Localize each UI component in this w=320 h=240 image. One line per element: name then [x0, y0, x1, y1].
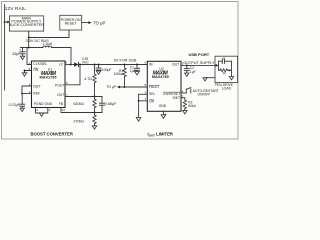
- ground below 270k: [92, 126, 96, 129]
- svg-text:ISET: ISET: [173, 96, 181, 100]
- block pen-drive load: [215, 56, 238, 82]
- junction 100uF top: [98, 64, 100, 66]
- pin 3 ISET wire to REF: [22, 86, 32, 93]
- svg-text:0.22µF: 0.22µF: [9, 103, 21, 107]
- block main power supply buck converter: [9, 16, 45, 31]
- svg-text:1.5µH: 1.5µH: [43, 42, 53, 46]
- wire 5V line: [78, 64, 147, 66]
- junction 4.7ohm bottom: [94, 96, 96, 98]
- junction POUT node: [79, 64, 81, 66]
- junction 4.7ohm top: [94, 64, 96, 66]
- op IC U1 boost converter: [32, 61, 66, 108]
- diode D1: [74, 62, 78, 66]
- pin 1 CLK/SEL wire to bus: [27, 48, 32, 65]
- svg-text:+: +: [19, 48, 21, 52]
- wire power-on reset output to uP: [82, 22, 89, 24]
- wire LX pin to 5V line: [65, 64, 74, 66]
- svg-text:0.68µF: 0.68µF: [105, 102, 117, 106]
- svg-text:IOUT LIMITER: IOUT LIMITER: [148, 132, 173, 138]
- resistor R2 60k on ISET: [181, 98, 197, 111]
- svg-text:1µF: 1µF: [190, 70, 196, 74]
- svg-text:REF: REF: [33, 92, 40, 96]
- capacitor 0.68uF feedforward: [100, 97, 118, 113]
- wire 3.3V bus horizontal to inductor: [21, 47, 43, 49]
- junction C2 top: [186, 64, 188, 66]
- pin 2 ON wire: [25, 71, 32, 73]
- junction SEL/ON: [138, 100, 140, 102]
- svg-text:LX: LX: [59, 62, 64, 66]
- capacitor C1 1uF: [130, 65, 140, 73]
- pin SEL wire: [139, 93, 148, 95]
- pin PGND GND wires: [36, 108, 48, 114]
- ground below 0.22uF: [20, 108, 24, 111]
- wire load box ground: [205, 77, 215, 79]
- junction bus tee: [28, 37, 30, 39]
- wire rail to main box: [5, 21, 10, 23]
- resistor R1 100k pullup: [114, 65, 127, 88]
- svg-text:BUCK CONVERTER: BUCK CONVERTER: [9, 23, 45, 27]
- svg-text:RESET: RESET: [65, 21, 78, 25]
- wire FAULT line to uP: [118, 86, 147, 88]
- pin ON wire: [139, 100, 148, 102]
- svg-text:FAULT: FAULT: [149, 85, 159, 89]
- pin numbers U2: [145, 61, 184, 117]
- svg-text:4.7Ω: 4.7Ω: [84, 77, 92, 81]
- junction on 12V rail: [4, 21, 6, 23]
- svg-text:10: 10: [62, 108, 66, 112]
- svg-text:100µF: 100µF: [102, 68, 112, 72]
- resistor 4.7 ohm: [84, 65, 96, 97]
- wire OUT pin: [65, 96, 102, 98]
- block power-on reset: [60, 15, 82, 30]
- svg-text:LOAD: LOAD: [222, 87, 232, 91]
- svg-text:12V RAIL: 12V RAIL: [5, 6, 27, 11]
- svg-text:ON/OFF: ON/OFF: [198, 92, 211, 96]
- border frame: [2, 2, 239, 140]
- junction R1 bottom on fault line: [124, 86, 126, 88]
- wire main box to 3.3V bus: [28, 32, 30, 48]
- svg-text:OUT: OUT: [172, 63, 179, 67]
- svg-text:CLK/SEL: CLK/SEL: [33, 62, 47, 66]
- svg-text:270kΩ: 270kΩ: [74, 120, 85, 124]
- ground below SEL/ON: [136, 118, 141, 122]
- svg-text:GND: GND: [45, 102, 53, 106]
- svg-text:620kΩ: 620kΩ: [74, 102, 85, 106]
- pin EN/RESET wire and switch: [181, 88, 191, 93]
- ground below R2: [183, 110, 187, 113]
- svg-text:PGND: PGND: [34, 102, 44, 106]
- svg-text:MAX4789: MAX4789: [152, 75, 169, 79]
- junction LX node: [70, 64, 72, 66]
- capacitor 0.22uF on REF: [9, 93, 25, 108]
- svg-text:TO µP: TO µP: [106, 85, 117, 89]
- wire 3.3V bus to reset box: [29, 30, 69, 38]
- ground below C2: [185, 73, 189, 76]
- pin GND wire U2: [162, 111, 164, 115]
- wire SEL/ON to ground: [138, 94, 140, 117]
- svg-text:OUTPUT SUPPLY: OUTPUT SUPPLY: [183, 61, 215, 65]
- ground at ON pin: [22, 73, 26, 76]
- svg-text:ISET: ISET: [33, 84, 41, 88]
- junction REF node: [21, 92, 23, 94]
- junction at bus/inductor line: [28, 47, 30, 49]
- op IC U2 current limiter: [147, 61, 181, 111]
- svg-text:TO µP: TO µP: [93, 20, 105, 25]
- ground at load box: [203, 78, 207, 81]
- svg-text:ON: ON: [149, 100, 155, 104]
- ground below 100uF: [96, 71, 100, 74]
- svg-text:5V FOR USB: 5V FOR USB: [114, 59, 137, 63]
- ground below 33uF: [20, 56, 24, 59]
- svg-text:OUT: OUT: [57, 93, 64, 97]
- svg-text:ON: ON: [33, 68, 39, 72]
- junction FB node: [94, 112, 96, 114]
- resistor 270k: [74, 113, 97, 126]
- junction R1 top: [124, 64, 126, 66]
- wire 12V rail vertical: [4, 5, 6, 91]
- pin FB wire to divider: [61, 108, 102, 113]
- capacitor C2 1uF: [184, 65, 195, 74]
- ground below C1: [135, 72, 139, 75]
- junction ON pin: [24, 70, 26, 72]
- capacitor C 33uF: [12, 48, 25, 57]
- svg-text:VDC: VDC: [82, 60, 90, 64]
- resistor 620k: [74, 97, 97, 113]
- inductor L1 1.5uH: [43, 42, 53, 47]
- ground at PGND/GND: [39, 113, 43, 116]
- svg-text:60kΩ: 60kΩ: [188, 104, 196, 108]
- capacitor 100uF: [96, 65, 111, 73]
- ground below U2 GND: [161, 115, 166, 119]
- wire OUT pin to output supply: [181, 64, 215, 66]
- svg-text:SEL: SEL: [149, 92, 156, 96]
- svg-text:BOOST CONVERTER: BOOST CONVERTER: [31, 132, 73, 137]
- wire inductor to LX node: [52, 48, 72, 65]
- wire POUT to 5V line: [65, 65, 80, 85]
- svg-text:FB: FB: [59, 102, 64, 106]
- svg-text:GND: GND: [159, 104, 167, 108]
- junction C1 top: [136, 64, 138, 66]
- svg-text:USB PORT: USB PORT: [189, 52, 210, 57]
- svg-text:IN: IN: [149, 63, 153, 67]
- pin numbers U1: [29, 61, 69, 112]
- svg-text:MAX1795: MAX1795: [40, 76, 57, 80]
- svg-text:POUT: POUT: [55, 83, 64, 87]
